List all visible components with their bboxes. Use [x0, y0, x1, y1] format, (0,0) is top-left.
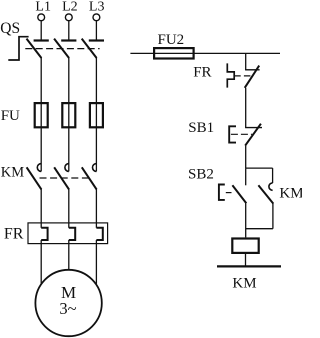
thermal relay FR box: [28, 223, 108, 244]
wire bus to FR contact: [245, 53, 247, 70]
contactor KM aux contact arc: [269, 183, 273, 190]
KM mechanical link dashed line: [40, 177, 91, 179]
motor M circle: [35, 270, 101, 336]
svg-text:FR: FR: [193, 65, 211, 81]
wire QS pole2 to FU2: [68, 58, 70, 104]
switch QS pole3 blade: [82, 39, 97, 58]
QS operating linkage: [8, 37, 28, 60]
wire QS pole3 to FU3: [95, 58, 97, 104]
svg-text:KM: KM: [1, 165, 24, 181]
fuse FU2: [154, 48, 194, 58]
KM aux branch lower wire: [272, 203, 274, 228]
fuse FU pole3: [95, 103, 97, 128]
FR NC contact blade: [245, 66, 260, 88]
junction branch wire to KM aux: [246, 167, 273, 169]
svg-text:3~: 3~: [59, 299, 76, 318]
wire KM1 to FR1: [40, 189, 42, 228]
wire FR1 to motor: [40, 240, 42, 283]
svg-text:L1: L1: [35, 0, 51, 15]
wire SB1 to junction: [245, 146, 247, 169]
svg-text:L2: L2: [62, 0, 78, 15]
control supply top bus wire: [130, 52, 280, 54]
terminal L3 circle: [93, 14, 100, 21]
wire FU1 to KM1: [40, 128, 42, 171]
switch QS pole1 blade: [27, 39, 42, 58]
contactor coil KM: [232, 239, 258, 253]
branch rejoin wire: [246, 228, 273, 230]
pushbutton SB1 button cap: [229, 126, 236, 142]
svg-text:L3: L3: [89, 0, 105, 15]
fuse FU pole2: [68, 103, 70, 128]
KM aux branch top wire: [272, 168, 274, 183]
switch QS pole2 fixed bar: [61, 39, 76, 41]
thermal relay FR heater element 1: [41, 228, 47, 240]
fuse FU pole1: [40, 103, 42, 128]
pushbutton SB2 NO blade: [232, 185, 246, 203]
contactor KM pole1 contact arc: [37, 164, 41, 172]
pushbutton SB1 NC blade: [245, 124, 261, 146]
switch QS pole3 fixed bar: [89, 39, 104, 41]
switch QS pole2 blade: [54, 39, 69, 58]
terminal L2 circle: [65, 14, 72, 21]
wire KM2 to FR2: [68, 189, 70, 228]
wire L3 to QS pole3: [95, 21, 97, 40]
wire FU3 to KM3: [95, 128, 97, 171]
thermal relay FR heater element 2: [69, 228, 75, 240]
svg-text:FR: FR: [4, 226, 24, 243]
svg-text:FU2: FU2: [158, 32, 185, 48]
contactor KM pole3 contact arc: [92, 164, 96, 172]
wire FR contact to SB1: [245, 88, 247, 128]
thermal relay FR heater element 3: [96, 228, 102, 240]
svg-text:SB2: SB2: [188, 166, 214, 182]
contactor KM pole2 contact arc: [65, 164, 69, 172]
pushbutton SB2 button cap: [219, 185, 225, 200]
FR NC contact top terminal foot: [245, 69, 260, 71]
contactor KM pole3 blade: [82, 167, 97, 189]
wire SB2 to coil: [245, 203, 247, 237]
SB2 actuator dashed link: [226, 192, 232, 194]
wire FU2 to KM2: [68, 128, 70, 171]
svg-text:KM: KM: [279, 186, 302, 202]
contactor KM pole1 blade: [27, 167, 42, 189]
wire QS pole1 to FU1: [40, 58, 42, 104]
svg-text:FU: FU: [1, 108, 20, 124]
switch QS pole1 fixed bar: [34, 39, 49, 41]
contactor KM aux blade: [258, 185, 273, 203]
contactor KM pole2 blade: [54, 167, 69, 189]
svg-text:SB1: SB1: [188, 120, 214, 136]
pushbutton SB1 NC top terminal foot: [245, 127, 262, 129]
svg-text:QS: QS: [0, 20, 20, 37]
FR thermal actuator symbol: [227, 63, 234, 87]
control supply bottom bar: [217, 265, 281, 267]
wire L2 to QS pole2: [68, 21, 70, 40]
svg-text:KM: KM: [232, 276, 256, 292]
SB1 actuator dashed link: [231, 133, 252, 135]
wire FR3 to motor: [95, 240, 97, 284]
wire L1 to QS pole1: [40, 21, 42, 40]
FR actuator dashed link: [234, 75, 251, 77]
wire junction to SB2: [245, 168, 247, 185]
terminal L1 circle: [38, 14, 45, 21]
wire KM3 to FR3: [95, 189, 97, 228]
wire FR2 to motor: [68, 240, 70, 269]
wire coil to bottom bar: [245, 254, 247, 266]
QS mechanical link dashed line: [25, 48, 99, 50]
